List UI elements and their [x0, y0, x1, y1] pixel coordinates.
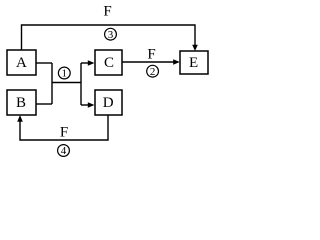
svg-text:D: D [103, 95, 114, 111]
circled 1 [58, 67, 70, 80]
box E [180, 51, 208, 74]
wire junction middle horizontal [52, 82, 81, 84]
svg-text:C: C [104, 55, 114, 71]
svg-text:A: A [16, 55, 27, 71]
box A [7, 50, 36, 75]
wire A output [36, 62, 52, 64]
svg-text:F: F [103, 4, 111, 20]
svg-text:B: B [16, 95, 26, 111]
wire A top to E top (path 3) [22, 25, 198, 51]
svg-text:E: E [189, 55, 198, 71]
circled 2 [147, 65, 159, 78]
arrow into C [81, 60, 95, 66]
arrow into D [81, 102, 95, 108]
box C [95, 50, 122, 75]
box D [95, 90, 122, 115]
wire AB junction vertical [51, 63, 53, 104]
circled 3 [105, 28, 117, 41]
wire C to E (path 2) [122, 59, 180, 65]
svg-text:4: 4 [61, 145, 67, 157]
wire branch vertical [80, 63, 82, 105]
box B [7, 90, 36, 115]
wire B output [36, 103, 52, 105]
svg-text:F: F [60, 125, 68, 141]
svg-text:2: 2 [150, 66, 156, 78]
wire D to B feedback (path 4) [17, 115, 108, 140]
svg-text:1: 1 [62, 68, 68, 80]
circled 4 [58, 145, 70, 158]
svg-text:F: F [147, 46, 155, 62]
svg-text:3: 3 [108, 29, 114, 41]
